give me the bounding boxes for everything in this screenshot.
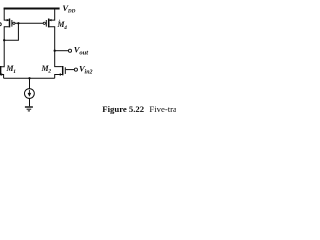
arrow M1 source (NMOS, pointing out) bbox=[1, 73, 4, 76]
current source ISS circle bbox=[25, 89, 35, 99]
cropped terminal at left edge (Vb of adjacent subfigure) bbox=[0, 23, 1, 26]
transistor M4 gate plate bbox=[45, 20, 47, 27]
terminal Vout bbox=[68, 49, 71, 52]
transistor M3 gate bubble bbox=[13, 22, 15, 24]
transistor M2 gate plate bbox=[64, 67, 66, 74]
junction node tail bbox=[28, 77, 30, 79]
wire M3 gate to M4 gate bbox=[15, 22, 43, 24]
wire tail node bbox=[4, 77, 55, 79]
wire M2 source to tail bbox=[55, 75, 62, 79]
wire Vout lead bbox=[55, 50, 69, 52]
wire current source to ground bbox=[29, 98, 31, 106]
stray ink speck bbox=[59, 20, 60, 21]
wire M3 drain down to M1 drain (node X) bbox=[1, 27, 9, 67]
transistor M3 channel bbox=[9, 19, 11, 28]
transistor M4 channel bbox=[48, 19, 50, 28]
terminal Vin2 bbox=[74, 68, 77, 71]
wire M1 source to tail bbox=[1, 75, 3, 79]
transistor M3 gate plate bbox=[11, 20, 13, 27]
arrow M2 source (NMOS, pointing out) bbox=[58, 73, 61, 76]
transistor M2 channel bbox=[62, 66, 64, 75]
wire M4 drain down to Vout node bbox=[49, 27, 62, 67]
transistor M1 channel (cut at left edge) bbox=[0, 66, 2, 75]
VDD rail bbox=[4, 8, 60, 10]
svg-text:Five-transistor: Five-transistor bbox=[149, 104, 176, 114]
wire M2 gate lead to Vin2 bbox=[66, 69, 75, 71]
arrow M3 source (PMOS, pointing into channel) bbox=[7, 19, 10, 22]
wire M3 source to VDD bbox=[4, 8, 9, 20]
current source arrow shaft bbox=[28, 90, 30, 94]
junction node Vout bbox=[54, 50, 56, 52]
arrow current source (pointing down) bbox=[28, 93, 32, 97]
junction node gate wire / diode tap bbox=[17, 22, 19, 24]
wire tail to current source bbox=[29, 78, 31, 88]
ground bar 1 bbox=[25, 106, 33, 108]
ground bar 3 bbox=[28, 110, 30, 112]
wire diode connection M3 gate to drain bbox=[4, 23, 18, 40]
junction node X on drain wire bbox=[3, 39, 5, 41]
arrow M4 source (PMOS, pointing into channel) bbox=[49, 19, 52, 22]
svg-text:Figure 5.22: Figure 5.22 bbox=[102, 104, 144, 114]
transistor M4 gate bubble bbox=[43, 22, 45, 24]
ground bar 2 bbox=[27, 108, 32, 110]
wire M4 source to VDD bbox=[49, 8, 54, 20]
